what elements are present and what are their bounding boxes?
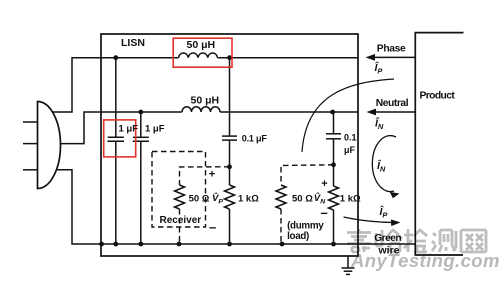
junction bus-C2 [138,242,143,247]
wire phase from plug [53,58,179,112]
svg-text:load): load) [287,231,309,242]
junction phase-C1 [113,55,118,60]
junction bus-case [99,242,104,247]
junction phase-C3 [227,55,232,60]
svg-text:1 μF: 1 μF [119,124,139,135]
svg-text:Phase: Phase [377,44,406,55]
LISN enclosure box [101,34,358,256]
junction bus-R4 [331,242,336,247]
product enclosure box (open right) [415,33,463,255]
arrowhead IN loop [390,192,400,198]
svg-text:50 μH: 50 μH [191,95,220,107]
red highlight box L1 [173,38,232,67]
receiver dashed bottom lead [179,209,181,244]
junction bus-R3 [280,242,285,247]
capacitor C3 0.1uF leads [229,58,231,136]
junction neutral-C4 [330,110,335,115]
char ce [432,230,456,252]
svg-text:1 μF: 1 μF [145,124,165,135]
char jian [404,229,427,252]
resistor R2 1k left [225,185,235,209]
arrowhead neutral [367,109,377,116]
node VN top [331,162,336,167]
wire neutral line right [220,111,358,113]
svg-text:+: + [321,178,327,190]
wire ground bus / green wire [56,170,415,244]
svg-text:–: – [209,220,216,235]
junction bus-C1 [113,242,118,247]
svg-text:50 Ω: 50 Ω [292,193,313,204]
svg-text:Green: Green [374,233,401,244]
node VP top [227,164,232,169]
wire phase line right [218,57,359,59]
svg-text:Neutral: Neutral [376,98,409,109]
dummy load dashed top lead [281,165,334,185]
svg-text:V̂N: V̂N [314,192,326,205]
inductor L2 50uH [182,107,220,112]
arrowhead IP bottom [391,220,401,227]
capacitor C1 1uF leads [115,58,117,138]
svg-text:1 kΩ: 1 kΩ [340,193,361,204]
svg-text:ÎP: ÎP [375,61,384,76]
watermark CJK [347,229,486,252]
plug prong bottom [23,169,38,171]
inductor L1 50uH [179,53,218,58]
wire neutral from plug [61,112,183,144]
svg-text:+: + [209,169,215,181]
resistor R1 50 ohm receiver [175,185,185,209]
plug prong middle [23,143,38,145]
neutral arrow from product [374,111,415,113]
svg-text:50 μH: 50 μH [187,39,216,51]
svg-text:0.1 μF: 0.1 μF [242,133,268,143]
svg-text:0.1: 0.1 [344,132,357,142]
capacitor C2 1uF leads [140,112,142,137]
resistor R3 50 ohm dummy [276,185,286,209]
wire R4 bottom lead [333,210,335,244]
circulating current arrow IN [372,136,396,192]
svg-text:ÎN: ÎN [377,159,386,174]
capacitor C2 plates [133,136,149,138]
svg-text:AnyTesting.com: AnyTesting.com [350,250,500,271]
receiver dashed top lead [180,167,230,185]
svg-text:ÎN: ÎN [375,117,384,132]
svg-text:ÎP: ÎP [380,205,389,220]
capacitor C3 plates [222,135,237,137]
current path curve [302,79,394,152]
capacitor C4 plates [326,133,341,135]
AC plug body [38,102,61,189]
resistor R4 1k right [329,186,339,210]
svg-text:wire: wire [378,245,400,257]
svg-text:Receiver: Receiver [160,215,202,226]
current arrow IP bottom [344,217,394,223]
char wang [461,230,486,252]
svg-text:(dummy: (dummy [287,221,324,232]
receiver dashed box [152,152,206,228]
svg-text:LISN: LISN [121,37,145,49]
junction neutral-C2 [138,110,143,115]
red highlight box C1 [104,120,136,157]
svg-text:V̂P: V̂P [212,192,223,205]
dummy load dashed bottom lead [280,209,282,244]
phase arrow from product [373,56,415,58]
arrowhead phase [366,54,376,61]
ground symbol [347,256,349,268]
junction bus-R2 [227,242,232,247]
svg-text:50 Ω: 50 Ω [189,193,210,204]
capacitor C1 plates [108,136,124,138]
char jia [347,229,371,252]
svg-text:μF: μF [344,145,356,155]
wire R2 bottom lead [229,209,231,244]
svg-text:–: – [321,205,328,220]
junction bus-R1 [177,242,182,247]
plug prong top [23,121,38,123]
svg-text:Product: Product [420,90,456,101]
char yu [376,230,402,252]
capacitor C4 0.1uF leads [333,112,335,134]
svg-text:1 kΩ: 1 kΩ [238,193,259,204]
